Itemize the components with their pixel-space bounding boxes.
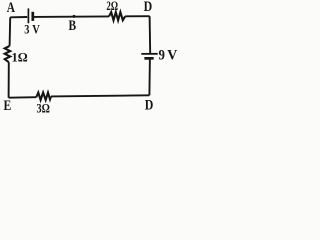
svg-text:2Ω: 2Ω — [106, 0, 118, 13]
resistor 2ohm — [106, 0, 125, 20]
svg-text:V: V — [167, 47, 177, 63]
svg-text:B: B — [69, 18, 77, 34]
svg-text:V: V — [32, 22, 40, 36]
svg-text:3Ω: 3Ω — [37, 101, 50, 116]
wire resistor 2ohm to corner D — [125, 15, 149, 17]
wire battery to node B to resistor 2ohm — [34, 15, 109, 18]
wire top-left A to battery — [10, 16, 27, 18]
wire left: corner E up to resistor 1ohm — [8, 62, 10, 97]
node D (top) — [144, 0, 153, 15]
svg-text:1Ω: 1Ω — [12, 50, 28, 64]
svg-text:9: 9 — [159, 47, 165, 63]
node B — [69, 15, 77, 34]
node A — [7, 0, 16, 16]
wire resistor 3ohm to corner E — [9, 96, 37, 99]
battery 3V — [24, 8, 40, 36]
node D (bottom) — [145, 98, 154, 114]
svg-text:D: D — [145, 98, 154, 114]
node E — [4, 98, 12, 114]
wire right side D down to battery — [149, 16, 152, 53]
resistor 3ohm — [36, 93, 51, 116]
svg-text:E: E — [4, 98, 12, 114]
svg-text:3: 3 — [24, 22, 29, 36]
svg-text:D: D — [144, 0, 153, 15]
wire bottom: corner D to resistor 3ohm — [51, 95, 149, 96]
wire resistor 1ohm up to corner A — [9, 17, 12, 46]
svg-text:A: A — [7, 0, 16, 16]
resistor 1ohm — [5, 46, 28, 65]
wire battery down to corner D bottom — [148, 58, 151, 95]
battery 9V — [141, 47, 177, 63]
